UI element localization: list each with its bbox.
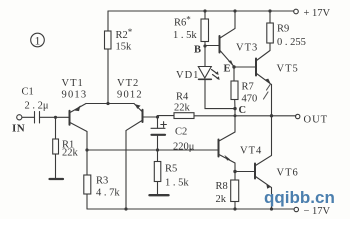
terminal IN: [17, 115, 22, 120]
resistor R2: [105, 31, 112, 49]
svg-text:B: B: [194, 45, 201, 56]
svg-text:C1: C1: [22, 87, 34, 98]
capacitor C1: [35, 112, 40, 124]
stray slash marks near VT5 emitter: [264, 84, 271, 99]
node VT3 collector junction: [233, 9, 236, 12]
wire VT1 emitter to R3: [86, 150, 88, 209]
svg-text:VD1: VD1: [176, 70, 199, 81]
svg-text:R9: R9: [277, 24, 289, 35]
polarity plus of C2: [161, 122, 167, 128]
node R9 top junction: [268, 9, 271, 12]
node C2/R5 junction: [156, 148, 159, 151]
wire collector line VT1-VT2: [86, 103, 134, 105]
svg-text:qqibb.cn: qqibb.cn: [264, 188, 335, 207]
wire to VT6 base: [235, 171, 255, 173]
svg-text:VT4: VT4: [240, 146, 262, 157]
node VT2 bottom junction: [124, 207, 127, 210]
wire R7 to C: [234, 100, 236, 109]
resistor R3: [84, 175, 91, 194]
node C: [233, 107, 236, 110]
wire top rail +17V: [108, 10, 293, 12]
LED VD1: [198, 67, 219, 81]
terminal +17V: [294, 9, 299, 14]
svg-text:470: 470: [242, 94, 258, 105]
wire R2 branch: [107, 11, 109, 103]
wire R8 branch: [234, 172, 236, 210]
node B: [203, 44, 206, 47]
wire R5 to ground: [157, 182, 159, 195]
node VT4 emitter junction: [233, 170, 236, 173]
svg-text:9012: 9012: [117, 90, 143, 101]
wire R6 branch: [204, 11, 206, 67]
svg-text:VT6: VT6: [277, 168, 299, 179]
wire VD1 to C node: [205, 79, 235, 108]
resistor R5: [154, 162, 161, 182]
wire C1 to VT1 base: [40, 116, 70, 118]
svg-text:1: 1: [35, 36, 41, 48]
node OUT junction: [270, 114, 273, 117]
svg-text:2 . 2μ: 2 . 2μ: [25, 101, 49, 112]
svg-text:0 . 255: 0 . 255: [277, 37, 306, 48]
node crossing at x235: [234, 114, 237, 117]
wire E to R7: [233, 67, 235, 81]
svg-text:1 . 5k: 1 . 5k: [173, 30, 197, 41]
svg-text:VT2: VT2: [117, 78, 139, 89]
svg-text:VT1: VT1: [62, 78, 84, 89]
svg-text:OUT: OUT: [304, 115, 329, 126]
svg-text:R7: R7: [242, 82, 254, 93]
svg-text:R5: R5: [165, 164, 177, 175]
svg-text:E: E: [224, 64, 231, 75]
svg-text:R3: R3: [96, 176, 108, 187]
svg-text:22k: 22k: [62, 148, 79, 159]
circled number 1: [31, 33, 45, 47]
resistor R4: [174, 113, 194, 119]
ground below R5: [150, 194, 169, 196]
resistor R1: [53, 139, 59, 154]
svg-text:R8: R8: [216, 181, 228, 192]
wire C to VT4 collector: [219, 109, 235, 141]
resistor R8: [231, 180, 239, 202]
wire E to VT5 base: [234, 66, 256, 68]
svg-text:4 . 7k: 4 . 7k: [96, 188, 120, 199]
svg-text:VT5: VT5: [277, 64, 299, 75]
svg-text:VT3: VT3: [236, 43, 258, 54]
terminal -17V: [294, 207, 298, 211]
wire node line y150 to VT4 base: [87, 149, 218, 151]
svg-text:C: C: [239, 105, 247, 116]
svg-text:1 . 5k: 1 . 5k: [165, 178, 189, 189]
node R1 top junction: [54, 116, 57, 119]
transistor VT4: [219, 140, 236, 172]
node C2 top junction: [156, 115, 159, 118]
svg-text:22k: 22k: [174, 103, 191, 114]
wire R1 branch: [55, 117, 57, 178]
svg-text:− 17V: − 17V: [304, 206, 331, 217]
svg-text:+ 17V: + 17V: [304, 8, 331, 19]
svg-text:220μ: 220μ: [173, 142, 195, 153]
transistor VT6: [255, 116, 272, 209]
resistor R7: [231, 81, 238, 100]
node R8 bottom junction: [233, 207, 236, 210]
wire B to VT3 base: [205, 45, 219, 47]
transistor VT2: [126, 104, 158, 210]
wire input: [22, 116, 35, 118]
svg-text:R4: R4: [176, 92, 189, 103]
transistor VT3: [220, 11, 236, 67]
wire feedback R4 to OUT: [158, 115, 297, 117]
svg-text:C2: C2: [175, 127, 187, 138]
capacitor C2: [151, 127, 165, 129]
transistor VT5: [256, 51, 272, 116]
svg-text:15k: 15k: [116, 42, 133, 53]
ground below R1: [50, 178, 64, 180]
node VT6 emitter junction: [270, 207, 273, 210]
wire R9 branch: [269, 11, 271, 51]
resistor R9: [267, 23, 274, 43]
wire bottom rail -17V: [87, 208, 294, 210]
node feedback line left junction: [85, 148, 88, 151]
node R2 bottom junction: [106, 102, 109, 105]
node R6 top junction: [203, 9, 206, 12]
transistor VT1: [70, 104, 88, 151]
resistor R6: [201, 19, 209, 42]
svg-text:9013: 9013: [62, 90, 88, 101]
wire C2 branch: [157, 117, 159, 162]
svg-text:IN: IN: [12, 123, 25, 135]
terminal OUT: [296, 114, 300, 118]
node E: [232, 65, 235, 68]
svg-text:2k: 2k: [216, 194, 227, 205]
